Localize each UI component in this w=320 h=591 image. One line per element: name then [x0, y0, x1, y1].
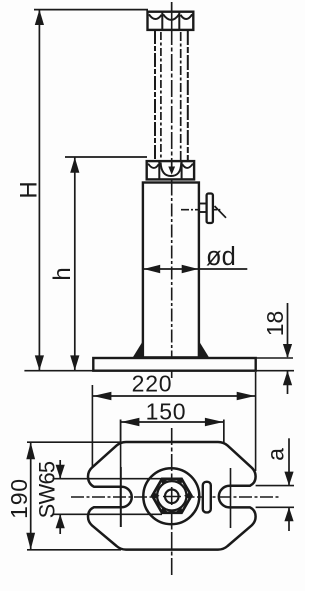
svg-text:190: 190: [6, 478, 32, 519]
svg-text:18: 18: [262, 311, 288, 337]
svg-text:H: H: [15, 181, 42, 198]
svg-text:ød: ød: [206, 243, 236, 271]
svg-text:a: a: [263, 448, 289, 461]
svg-text:150: 150: [146, 399, 187, 425]
svg-text:SW65: SW65: [35, 461, 60, 518]
svg-text:h: h: [49, 267, 76, 280]
svg-text:220: 220: [132, 371, 173, 397]
